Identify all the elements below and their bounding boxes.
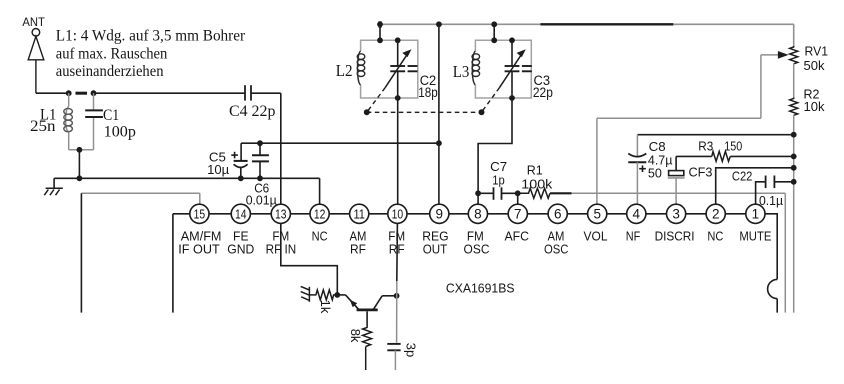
node C2 bottom (395, 95, 401, 101)
capacitor C6 (252, 143, 269, 178)
svg-text:GND: GND (227, 241, 254, 256)
svg-text:ANT: ANT (22, 15, 45, 29)
node L1C1 bottom (77, 147, 83, 153)
wire L3 bottom to pin8 (478, 98, 512, 193)
inductor L1 (64, 93, 73, 150)
svg-text:5: 5 (593, 207, 601, 222)
node C6 bottom (257, 175, 263, 181)
inductor L3 (472, 51, 480, 85)
svg-text:6: 6 (554, 207, 562, 222)
node C3 bottom (509, 95, 515, 101)
svg-text:15: 15 (194, 207, 206, 222)
wire pin12 riser from rail (319, 178, 321, 204)
svg-text:MUTE: MUTE (739, 228, 771, 243)
svg-text:IF OUT: IF OUT (178, 241, 220, 256)
svg-text:2: 2 (712, 207, 720, 222)
ground rail (54, 178, 320, 188)
wire pin15 gray (81, 193, 199, 204)
node C2 top (395, 37, 401, 43)
node rail R3 (791, 154, 797, 160)
svg-text:50k: 50k (804, 58, 825, 73)
pin label 9 REG OUT (422, 228, 448, 256)
svg-text:14: 14 (235, 207, 247, 222)
node pin8 top (475, 190, 481, 196)
wire pin1 mute exit (765, 214, 777, 313)
svg-text:4: 4 (633, 207, 641, 222)
svg-text:NF: NF (626, 228, 641, 243)
node rail pin2 (791, 165, 797, 171)
svg-text:0.01µ: 0.01µ (246, 193, 277, 208)
wire pin chain (190, 213, 765, 215)
wire top rail black middle (540, 23, 673, 25)
node C6 top (257, 140, 263, 146)
svg-text:50: 50 (648, 166, 662, 181)
svg-text:25n: 25n (30, 118, 56, 135)
svg-text:R1: R1 (527, 163, 543, 178)
dashed gang line C2 (368, 88, 385, 111)
capacitor 3p (387, 344, 400, 370)
capacitor C7 (494, 187, 502, 200)
tank box L2C2 (361, 40, 418, 98)
svg-text:RF: RF (350, 241, 366, 256)
wire R3 row (676, 155, 794, 157)
svg-text:CXA1691BS: CXA1691BS (446, 282, 515, 296)
svg-text:12: 12 (314, 207, 326, 222)
svg-text:13: 13 (275, 207, 287, 222)
svg-text:0.1µ: 0.1µ (759, 193, 783, 208)
antenna ANT (28, 29, 44, 94)
wire antenna horizontal (36, 92, 245, 94)
node top rail L3 (491, 21, 497, 27)
IC pin 1 (746, 204, 765, 223)
wire pin9 riser (438, 24, 440, 204)
svg-text:10k: 10k (804, 99, 825, 114)
svg-text:auf max. Rauschen: auf max. Rauschen (56, 46, 168, 63)
svg-text:OUT: OUT (423, 241, 448, 256)
wire exit left A (80, 193, 82, 312)
wire top rail gray right (673, 24, 793, 46)
node rail C22 (791, 179, 797, 185)
ground symbol 1k (301, 286, 310, 301)
svg-text:L1: 4 Wdg. auf 3,5 mm Bohrer: L1: 4 Wdg. auf 3,5 mm Bohrer (56, 27, 246, 44)
pin label 10 FM RF (388, 228, 405, 256)
capacitor C4 (245, 85, 251, 100)
svg-text:auseinanderziehen: auseinanderziehen (56, 63, 164, 80)
svg-text:NC: NC (707, 228, 723, 243)
node rail C8 (791, 132, 797, 138)
svg-text:3: 3 (672, 207, 680, 222)
wire top rail start tick (379, 21, 382, 27)
svg-text:R3: R3 (698, 139, 713, 154)
capacitor C3 variable (500, 40, 532, 98)
wire pin10 down (396, 223, 399, 342)
svg-text:150: 150 (724, 139, 742, 154)
IC pin 10 (388, 204, 407, 223)
node C3 top (509, 37, 515, 43)
svg-text:10: 10 (392, 207, 404, 222)
wire top rail gray left (380, 23, 540, 25)
ground symbol left (44, 188, 63, 195)
node L3 top left (491, 37, 497, 43)
svg-text:AFC: AFC (504, 228, 529, 243)
resistor R2 (790, 98, 798, 116)
resistor 8k (363, 311, 372, 370)
pin label 15 AM/FM IF OUT (178, 228, 221, 256)
wiper RV1 (597, 51, 789, 204)
IC pin 7 (508, 204, 527, 223)
IC pin 4 (627, 204, 646, 223)
node pin7 top (515, 190, 521, 196)
resistor R3 (712, 151, 731, 161)
wire stub L3 top (493, 24, 495, 40)
node C5C6 wire end at pin9 riser (436, 140, 442, 146)
dashed gang horizontal (367, 111, 482, 113)
capacitor C8 electrolytic (628, 135, 646, 205)
node C5 bottom (238, 175, 244, 181)
pin label 11 AM RF (350, 228, 367, 256)
node top rail L2 (377, 21, 383, 27)
transistor Q1 (337, 295, 396, 310)
svg-text:VOL: VOL (584, 228, 608, 243)
svg-text:C22: C22 (732, 169, 753, 184)
IC pin 12 (310, 204, 329, 223)
dashed gang line C3 (483, 88, 500, 111)
svg-text:C1: C1 (103, 107, 119, 124)
capacitor C1 (69, 93, 94, 150)
svg-text:100k: 100k (521, 177, 553, 192)
IC pin 14 (231, 204, 250, 223)
IC pin 13 (271, 204, 290, 223)
tank box L3C3 (475, 40, 531, 98)
IC pin 3 (667, 204, 686, 223)
svg-text:L2: L2 (336, 61, 353, 80)
svg-text:3p: 3p (403, 343, 418, 357)
svg-text:RV1: RV1 (805, 43, 829, 58)
wire R1 extension gray to mute column (572, 193, 786, 312)
IC pin 15 (190, 204, 209, 223)
svg-text:8: 8 (474, 207, 482, 222)
wire C5C6 horizontal (241, 142, 439, 144)
svg-text:11: 11 (353, 207, 365, 222)
wire C8 top (637, 134, 793, 136)
svg-text:100p: 100p (104, 123, 136, 140)
IC pin 5 (588, 204, 607, 223)
svg-text:7: 7 (514, 207, 522, 222)
wire RV1 to R2 (793, 64, 795, 98)
IC pin 9 (430, 204, 449, 223)
ceramic filter CF3 (668, 156, 685, 204)
svg-text:DISCRI: DISCRI (655, 228, 695, 243)
node ground rail antenna (77, 175, 83, 181)
pin label 6 AM OSC (544, 228, 569, 256)
wire L1C1 to ground rail (78, 150, 80, 179)
svg-text:9: 9 (436, 207, 444, 222)
IC pin 11 (350, 204, 369, 223)
svg-text:C7: C7 (490, 159, 507, 174)
svg-text:18p: 18p (418, 85, 438, 100)
svg-text:1: 1 (752, 207, 760, 222)
svg-text:22p: 22p (533, 85, 553, 100)
node top rail pin9 (436, 21, 442, 27)
svg-text:L3: L3 (453, 62, 470, 81)
svg-text:10µ: 10µ (207, 162, 230, 177)
node gang right (479, 109, 485, 115)
IC pin 6 (548, 204, 567, 223)
node collector 3p (394, 293, 400, 299)
pin label 13 FM RF IN (266, 228, 297, 256)
wire C7 R1 row (478, 193, 571, 204)
arrowhead C3 (517, 49, 526, 57)
resistor R1 (518, 188, 550, 198)
svg-text:OSC: OSC (544, 241, 569, 256)
arrowhead C2 (402, 49, 411, 57)
resistor 1k (309, 290, 337, 300)
node gang left (364, 109, 370, 115)
svg-text:1p: 1p (492, 173, 505, 188)
capacitor C22 (756, 176, 794, 205)
pin label 8 FM OSC (464, 228, 490, 256)
pin label 14 FE GND (227, 228, 254, 256)
IC pin 2 (706, 204, 725, 223)
wire stub L2 top (379, 24, 381, 40)
svg-text:8k: 8k (348, 329, 363, 343)
svg-text:C4 22p: C4 22p (229, 103, 275, 120)
IC pin 8 (468, 204, 487, 223)
svg-text:1k: 1k (318, 300, 333, 314)
wire pin13 down (281, 223, 338, 295)
inductor L2 (357, 51, 365, 85)
wire right rail (793, 115, 795, 312)
wire pin2 riser (716, 168, 794, 204)
node L2 top left (377, 37, 383, 43)
potentiometer RV1 (790, 46, 798, 64)
node antenna-L1 (66, 90, 72, 96)
wire C4 to pin13 (251, 93, 281, 204)
svg-text:NC: NC (312, 228, 328, 243)
svg-text:CF3: CF3 (689, 164, 713, 179)
capacitor C2 variable (385, 40, 417, 98)
node transistor base-1k (334, 292, 340, 298)
svg-text:OSC: OSC (464, 241, 490, 256)
node antenna-C1 (91, 90, 97, 96)
wire exit left B from pin15 (173, 214, 190, 313)
wire L2 bottom to pin10 (397, 98, 399, 204)
capacitor C5 electrolytic (231, 143, 247, 178)
